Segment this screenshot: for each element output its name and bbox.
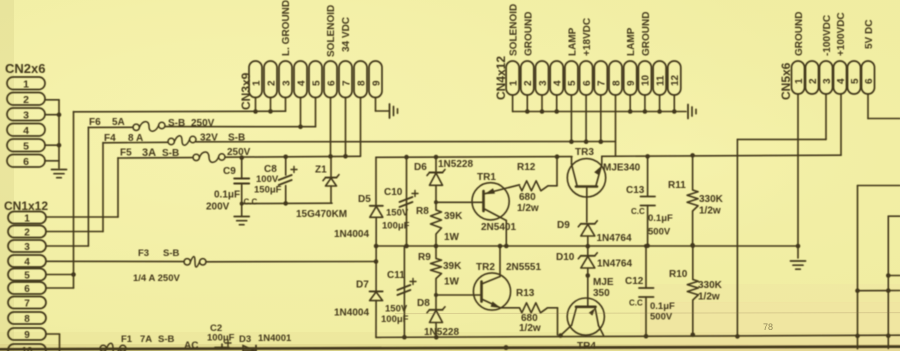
wire CN4x12 pin12 stub (673, 95, 675, 112)
svg-text:100μF: 100μF (382, 221, 410, 232)
connector CN1x12 pin 3 (8, 240, 46, 252)
junction R12 riser (555, 154, 560, 159)
wire right box v2 (887, 216, 889, 348)
svg-text:330K: 330K (698, 280, 723, 291)
svg-text:1: 1 (508, 80, 519, 86)
svg-text:F6: F6 (89, 117, 101, 128)
svg-text:1N4004: 1N4004 (334, 229, 369, 240)
wire run H2 left segment (88, 126, 133, 128)
svg-text:+18VDC: +18VDC (582, 18, 593, 56)
svg-text:2: 2 (266, 80, 277, 86)
svg-text:D6: D6 (414, 162, 427, 173)
svg-text:1: 1 (251, 80, 262, 86)
connector CN3x9 pin 6 (324, 61, 337, 98)
fuse F6 (133, 124, 139, 130)
junction on 32V line (584, 139, 589, 144)
zener D10 (581, 255, 595, 257)
wire CN3x9 pin1 stub (255, 98, 257, 112)
connector CN3x9 pin 5 (309, 61, 322, 98)
svg-text:100μF: 100μF (207, 333, 235, 344)
junction -100V on bottom rail (735, 334, 740, 339)
junction bus (525, 109, 530, 114)
wire CN2x6 pin6 stub (45, 160, 59, 162)
svg-text:9: 9 (24, 330, 30, 341)
svg-text:8 A: 8 A (128, 133, 143, 144)
svg-text:C.C: C.C (631, 207, 645, 216)
svg-text:2: 2 (808, 78, 819, 84)
connector CN4x12 pin 5 (565, 61, 578, 95)
svg-text:F5: F5 (120, 148, 132, 159)
wire mid rail (376, 245, 798, 247)
TR2 emitter lead with arrow (482, 299, 501, 308)
junction C12 bottom rail (644, 334, 649, 339)
connector CN1x12 pin 8 (8, 312, 46, 324)
svg-text:3: 3 (24, 242, 30, 253)
ground C9 (234, 216, 249, 218)
fuse F5 (193, 154, 199, 160)
wire D9 to mid rail (587, 236, 589, 256)
svg-text:CN3x9: CN3x9 (239, 72, 253, 110)
wire CN4x12 pin4 stub (556, 95, 558, 112)
svg-text:-100VDC: -100VDC (822, 15, 833, 56)
svg-text:5: 5 (567, 80, 578, 86)
svg-text:R12: R12 (517, 162, 536, 173)
svg-text:LAMP: LAMP (567, 27, 578, 56)
connector CN4x12 pin 10 (638, 61, 651, 95)
junction pin7 on 250V (343, 154, 348, 159)
svg-text:5A: 5A (112, 117, 125, 128)
connector CN3x9 pin 4 (294, 61, 307, 98)
svg-text:S-B: S-B (162, 148, 179, 159)
wire left edge middle (375, 217, 377, 291)
wire riser V3 (fuse F4 run) (102, 143, 104, 232)
wire bottom edge line (0, 347, 900, 350)
wire raw 250V top rail (left segment) (376, 156, 572, 159)
TR4 left (collector) lead (572, 307, 577, 325)
junction R13/TR4 emitter on bottom rail (558, 333, 563, 338)
junction bus (540, 109, 545, 114)
svg-text:1: 1 (794, 78, 805, 84)
connector CN4x12 pin 1 (506, 61, 519, 95)
wire run H1 to CN3x9 pins 1-3 (74, 110, 286, 113)
junction C11 bottom rail (402, 335, 407, 340)
svg-text:+100VDC: +100VDC (836, 12, 847, 56)
connector CN1x12 pin 9 (8, 328, 46, 340)
connector CN2x6 pin 5 (7, 139, 45, 152)
connector CN4x12 pin 9 (624, 61, 637, 95)
wire D6 to node (435, 185, 437, 210)
svg-text:5: 5 (24, 270, 30, 281)
svg-text:R9: R9 (418, 252, 431, 263)
junction (855, 288, 860, 293)
svg-text:39K: 39K (443, 261, 462, 272)
connector CN1x12 pin 1 (8, 212, 46, 224)
connector CN4x12 pin 4 (550, 61, 563, 95)
svg-text:D7: D7 (356, 280, 369, 291)
wire CN3x9 pin6 drop to 250V rail (330, 98, 332, 157)
svg-text:S-B: S-B (163, 248, 180, 259)
resistor R12 (520, 181, 549, 191)
svg-text:350: 350 (593, 288, 610, 299)
connector CN3x9 pin 7 (339, 61, 352, 98)
fuse F3 (184, 259, 190, 265)
svg-text:MJE340: MJE340 (603, 163, 641, 174)
connector CN4x12 pin 3 (536, 61, 549, 95)
junction bus (672, 109, 677, 114)
svg-text:S-B: S-B (158, 334, 175, 345)
wire riser V2 (fuse F6 run) (87, 127, 89, 246)
capacitor C10 (406, 157, 408, 246)
wire CN1x12 pin3 to F6 riser (46, 245, 88, 247)
TR1 emitter lead with arrow (484, 185, 520, 194)
svg-text:1W: 1W (444, 277, 460, 288)
capacitor C12 (645, 246, 647, 288)
svg-text:9: 9 (371, 80, 382, 86)
junction on 32V line (569, 139, 574, 144)
junction CN3x9 pin4 (298, 125, 303, 130)
junction C8 bottom (283, 201, 288, 206)
svg-text:GROUND: GROUND (523, 12, 534, 56)
wire CN3x9 pin8 drop (360, 98, 362, 157)
svg-text:GROUND: GROUND (794, 12, 805, 56)
wire CN3x9 pin9 to earth (375, 98, 377, 112)
svg-text:D10: D10 (556, 252, 575, 263)
junction D6 top (434, 155, 439, 160)
wire right box v1 (857, 186, 859, 349)
wire D8 to bottom rail (435, 323, 437, 338)
wire CN1x12 pin5 stub (46, 274, 74, 276)
capacitor C13 (647, 156, 649, 196)
transistor TR4 (567, 298, 604, 335)
junction C13 mid rail (645, 243, 650, 248)
wire CN1x12 pin4 to fuse F3 (46, 260, 184, 262)
svg-text:Z1: Z1 (315, 165, 327, 176)
svg-text:L. GROUND: L. GROUND (281, 0, 292, 56)
svg-text:1N5228: 1N5228 (438, 159, 473, 170)
wire left edge lower (375, 301, 377, 338)
junction pin5 (57, 143, 62, 148)
diode D5 (370, 205, 383, 207)
connector CN3x9 pin 3 (279, 61, 292, 98)
svg-text:150V: 150V (385, 304, 408, 315)
wire CN4x12 pin8 drop to +100V rail (615, 95, 617, 156)
svg-text:32V: 32V (200, 133, 218, 144)
connector CN5x6 pin 3 (820, 61, 833, 94)
svg-text:TR1: TR1 (477, 172, 496, 183)
svg-text:4: 4 (24, 257, 30, 268)
svg-text:6: 6 (23, 156, 29, 168)
junction D9/D10 mid rail (586, 244, 591, 249)
resistor R13 (520, 303, 548, 313)
TR4 emitter lead with arrow (595, 307, 599, 325)
connector CN1x12 pin 4 (8, 255, 46, 267)
svg-text:5: 5 (311, 80, 322, 86)
junction TR2 collector mid rail (498, 244, 503, 249)
svg-text:1N4764: 1N4764 (597, 233, 632, 244)
wire CN1x12 pin6 to L.GROUND riser (46, 287, 74, 289)
svg-text:0.1μF: 0.1μF (648, 213, 673, 224)
junction bottom rail v2 (886, 334, 891, 339)
wire CN1x12 pin1 to 250V riser (46, 216, 118, 218)
svg-text:4: 4 (23, 125, 29, 137)
svg-text:D5: D5 (358, 194, 371, 205)
connector CN3x9 pin 8 (354, 61, 367, 98)
wire right box top2 (888, 215, 900, 217)
svg-text:5: 5 (23, 140, 29, 152)
svg-text:15G470KM: 15G470KM (296, 209, 347, 220)
wire CN2x6 pin2 to ground bus (45, 99, 59, 101)
svg-text:TR3: TR3 (575, 147, 594, 158)
svg-text:500V: 500V (648, 227, 671, 238)
junction (886, 288, 891, 293)
svg-text:TR2: TR2 (476, 262, 495, 273)
junction R10 bottom rail (691, 333, 696, 338)
svg-text:1N4004: 1N4004 (334, 308, 369, 319)
svg-text:8: 8 (356, 80, 367, 86)
svg-text:1N5228: 1N5228 (424, 327, 459, 338)
svg-text:1/2w: 1/2w (699, 206, 721, 217)
svg-text:C11: C11 (387, 270, 405, 281)
connector CN2x6 pin 2 (7, 93, 45, 106)
TR3 collector lead (572, 164, 578, 186)
connector CN1x12 pin 2 (8, 226, 46, 238)
svg-text:680: 680 (519, 192, 536, 203)
svg-text:150μF: 150μF (254, 185, 282, 196)
svg-text:C13: C13 (626, 185, 645, 196)
wire CN3x9 pin7 drop to 250V rail (345, 98, 347, 157)
svg-text:78: 78 (763, 322, 773, 332)
svg-text:1/4 A 250V: 1/4 A 250V (133, 273, 180, 284)
junction R11 mid rail (690, 243, 695, 248)
wire CC rail (242, 202, 332, 204)
junction pin6 on 250V (328, 154, 333, 159)
wire CN4x12 pin5 drop to 32V line (570, 95, 572, 142)
junction C10 mid rail (404, 244, 409, 249)
svg-text:GROUND: GROUND (641, 12, 652, 56)
svg-text:C.C: C.C (629, 299, 643, 308)
svg-text:6: 6 (326, 80, 337, 86)
wire R12 to riser (548, 185, 557, 187)
svg-text:R11: R11 (668, 180, 686, 191)
svg-text:1N4001: 1N4001 (258, 333, 292, 344)
svg-text:1/2w: 1/2w (517, 203, 539, 214)
svg-text:100V: 100V (256, 174, 279, 185)
junction (886, 273, 891, 278)
connector CN5x6 pin 5 (848, 61, 861, 94)
connector CN4x12 pin 12 (668, 61, 681, 95)
svg-text:5: 5 (850, 78, 861, 84)
svg-text:3A: 3A (142, 147, 156, 159)
wire bottom rail (376, 335, 900, 337)
connector CN3x9 pin 1 (249, 61, 262, 98)
wire right box h275 (888, 275, 900, 277)
svg-text:C.C: C.C (244, 198, 258, 207)
wire CN3x9 pin5 stub (315, 98, 317, 127)
wire regulator box left edge upper (375, 157, 377, 205)
wire +100V output rail (602, 155, 841, 156)
svg-text:4: 4 (836, 78, 847, 84)
svg-text:7: 7 (597, 80, 608, 86)
wire CN4x12 ground bus (512, 95, 514, 112)
wire CN5x6 pin1 ground drop (797, 94, 799, 246)
svg-text:F1: F1 (121, 334, 133, 345)
zener D9 (581, 223, 595, 225)
svg-text:F3: F3 (138, 248, 149, 259)
junction D8 bottom rail (434, 335, 439, 340)
wire CN2x6 pin5 stub (45, 144, 59, 146)
transistor TR1 (472, 183, 509, 220)
wire CN3x9 pin4 stub (300, 98, 302, 127)
svg-text:6: 6 (864, 78, 875, 84)
wire CN4x12 pin9 stub (629, 95, 631, 112)
svg-text:C10: C10 (384, 187, 403, 198)
connector CN4x12 pin 11 (653, 61, 666, 95)
svg-text:SOLENOID: SOLENOID (509, 4, 520, 56)
wire riser V4 (fuse F5 run) (117, 158, 119, 217)
junction D10 node (586, 273, 591, 278)
wire C9 ground stub (241, 204, 243, 216)
svg-text:LAMP: LAMP (626, 27, 637, 56)
svg-text:0.1μF: 0.1μF (214, 190, 240, 201)
wire riser V1 (L.GROUND run) (73, 112, 75, 288)
junction on 32V line (599, 139, 604, 144)
svg-text:7: 7 (24, 298, 30, 309)
svg-text:C9: C9 (223, 166, 236, 177)
connector CN2x6 pin 1 (7, 77, 45, 90)
svg-text:D8: D8 (417, 298, 430, 309)
TR1 collector lead (484, 209, 507, 221)
resistor R10 (692, 246, 694, 280)
resistor R11 (692, 155, 694, 190)
transistor TR3 (567, 159, 605, 197)
wire R8 to mid rail (435, 234, 437, 246)
junction CN3x9 pin1 (253, 109, 258, 114)
svg-text:0.1μF: 0.1μF (650, 301, 675, 312)
connector CN4x12 pin 6 (580, 61, 593, 95)
svg-text:200V: 200V (206, 202, 230, 213)
wire CN3x9 pin3 stub (285, 98, 287, 112)
wire F3 to regulator left rail (206, 261, 376, 263)
wire CN4x12 pin3 stub (541, 95, 543, 112)
junction TR1 collector mid rail (504, 244, 509, 249)
svg-text:7: 7 (341, 80, 352, 86)
svg-text:MJE: MJE (593, 277, 614, 288)
junction bus (554, 109, 559, 114)
junction bus (628, 109, 633, 114)
svg-text:100μF: 100μF (381, 314, 409, 325)
svg-text:330K: 330K (699, 194, 724, 205)
wire D10 to TR4 base (587, 268, 589, 307)
svg-text:4: 4 (296, 80, 307, 86)
connector CN5x6 pin 6 (862, 61, 875, 94)
svg-text:3: 3 (538, 80, 549, 86)
svg-text:39K: 39K (444, 211, 463, 222)
svg-text:2: 2 (523, 80, 534, 86)
svg-text:1W: 1W (444, 232, 460, 243)
TR3 emitter lead with arrow (596, 164, 602, 185)
svg-text:S-B: S-B (228, 133, 245, 144)
svg-text:3: 3 (23, 109, 29, 121)
fuse F1 (partial at edge) (100, 345, 106, 351)
connector CN1x12 pin 10 (8, 344, 46, 351)
zener Z1 (330, 156, 332, 177)
svg-text:8: 8 (611, 80, 622, 86)
wire right box top1 (858, 185, 900, 187)
wire run H4 (250V) to CN3x9 pin8 (225, 155, 360, 158)
svg-text:2: 2 (23, 94, 29, 106)
svg-text:S-B: S-B (168, 118, 185, 129)
connector CN1x12 pin 5 (8, 269, 46, 281)
resistor R8 (431, 210, 442, 234)
junction C9 gnd (240, 202, 244, 206)
svg-text:1N4764: 1N4764 (597, 259, 632, 270)
wire R9 to node (435, 279, 437, 310)
ground CN3x9 (389, 104, 391, 118)
TR2 collector lead (482, 277, 501, 285)
svg-text:5V DC: 5V DC (864, 20, 875, 49)
svg-text:1/2w: 1/2w (698, 292, 720, 303)
wire CN1x12 pin9 down (46, 333, 60, 335)
wire R13 to bottom rail (548, 307, 558, 309)
connector CN4x12 pin 7 (594, 61, 607, 95)
junction CN3x9 pin2 (268, 109, 273, 114)
svg-text:R8: R8 (416, 206, 429, 217)
svg-text:SOLENOID: SOLENOID (326, 5, 337, 57)
wire run H2 right segment to CN3x9 pin5 (165, 126, 316, 128)
svg-text:1: 1 (23, 78, 29, 90)
svg-text:1/2w: 1/2w (519, 323, 541, 334)
svg-text:1: 1 (24, 213, 30, 224)
wire run H3 left segment (103, 141, 168, 144)
svg-text:R13: R13 (516, 288, 535, 299)
connector CN5x6 pin 4 (834, 61, 847, 94)
resistor R9 (435, 246, 437, 259)
wire CN5x6 pin4 +100VDC drop (840, 94, 842, 155)
connector CN4x12 pin 8 (609, 61, 622, 95)
svg-text:8: 8 (24, 314, 30, 325)
wire run H4 left segment (118, 157, 193, 159)
svg-text:D9: D9 (557, 220, 570, 231)
diode D3 partial (243, 346, 255, 351)
capacitor C9 (241, 158, 243, 178)
wire right box h290 (858, 290, 900, 292)
junction mid rail left (374, 244, 379, 249)
svg-text:3: 3 (822, 78, 833, 84)
wire CN1x12 pin2 to 32V riser (46, 231, 103, 233)
wire CN4x12 pin2 stub (526, 95, 528, 112)
svg-text:CN2x6: CN2x6 (5, 61, 45, 76)
wire TR2 base feed (436, 294, 482, 296)
junction bus (643, 109, 648, 114)
junction pin5 riser (71, 272, 76, 277)
connector CN3x9 pin 2 (264, 61, 277, 98)
connector CN2x6 pin 3 (7, 108, 45, 121)
junction bottom rail v1 (855, 334, 860, 339)
svg-text:250V: 250V (191, 118, 215, 129)
svg-text:250V: 250V (227, 147, 251, 158)
ground CN4x12 bus earth (687, 105, 689, 119)
svg-text:2N5551: 2N5551 (506, 262, 541, 273)
fuse F4 (168, 138, 174, 144)
svg-text:10: 10 (641, 74, 652, 86)
connector CN3x9 pin 9 (369, 61, 382, 98)
diode D7 (370, 290, 383, 292)
svg-text:2: 2 (24, 227, 30, 238)
wire CN5x6 pin3 -100VDC drop (825, 94, 827, 139)
junction C10 top (404, 155, 409, 160)
connector CN1x12 pin 7 (8, 297, 46, 309)
svg-text:4: 4 (553, 80, 564, 86)
